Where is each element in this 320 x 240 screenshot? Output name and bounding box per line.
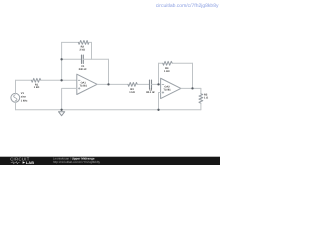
resistor R4: [163, 61, 173, 65]
wire feedback left vertical: [61, 42, 63, 80]
wire R4 right vertical down to output: [192, 63, 194, 88]
wire OA2 noninverting input to rail: [159, 93, 161, 110]
node dot ground junction: [60, 109, 62, 111]
svg-text:circuitlab.com/c/7fh2jg8kb8y: circuitlab.com/c/7fh2jg8kb8y: [156, 3, 219, 9]
wire OA1 noninverting input to ground drop: [62, 88, 77, 109]
svg-text:240 nF: 240 nF: [79, 68, 88, 71]
resistor R2: [78, 41, 89, 45]
svg-text:TL081: TL081: [163, 89, 171, 92]
wire bottom rail: [16, 109, 201, 111]
node dot feedback-input junction: [60, 79, 62, 81]
wire V1 bottom lead: [15, 102, 17, 109]
label R5: [204, 94, 208, 100]
wire R4 row left: [159, 62, 163, 64]
svg-text:1 kΩ: 1 kΩ: [129, 91, 135, 94]
wire R2 row right: [89, 41, 92, 43]
svg-text:1 Ω: 1 Ω: [204, 97, 208, 100]
logo CircuitLab: [10, 157, 34, 165]
wire R1 to OA1 inverting input: [41, 79, 77, 81]
watermark bar: [0, 157, 220, 165]
resistor R1: [32, 78, 41, 82]
wire V1 top lead: [15, 80, 17, 93]
node dot OA2 ground junction: [157, 109, 159, 111]
wire R2-C1 right vertical: [91, 42, 93, 59]
wire R5 bottom lead: [200, 103, 202, 110]
voltage source V1: [11, 93, 20, 102]
svg-text:1 kHz: 1 kHz: [21, 99, 28, 102]
watermark text: [53, 157, 101, 165]
wire OA2 output row: [181, 87, 201, 89]
wire C1 row down to output: [108, 59, 110, 84]
svg-text:2 kΩ: 2 kΩ: [80, 48, 86, 51]
wire R4 feedback left vertical: [158, 63, 160, 84]
svg-text:sine: sine: [21, 96, 27, 99]
svg-text:http://circuitlab.com/c/7Th2Jg: http://circuitlab.com/c/7Th2Jg8kb8y: [53, 160, 101, 164]
resistor R5: [199, 94, 203, 104]
node dot OA1 output junction: [107, 83, 109, 85]
op-amp OA2: [161, 78, 181, 98]
capacitor C1: [82, 55, 84, 63]
label V1: [21, 92, 28, 102]
ground: [59, 112, 65, 116]
node dot OA2 input junction: [157, 83, 159, 85]
wire signal row V1 to R1: [16, 79, 32, 81]
svg-text:1 kΩ: 1 kΩ: [164, 70, 170, 73]
node dot C1 row left junction: [60, 58, 62, 60]
svg-text:1 kΩ: 1 kΩ: [34, 86, 40, 89]
capacitor C2: [150, 80, 152, 89]
wire R4 row right: [172, 62, 192, 64]
node dot OA2 output junction: [191, 87, 193, 89]
svg-text:LAB: LAB: [26, 161, 34, 165]
wire R3 to C2: [137, 83, 149, 85]
svg-text:TL081: TL081: [80, 85, 88, 88]
url watermark top-right: [156, 3, 219, 9]
wire OA1 output row: [97, 83, 128, 85]
wire C1 row right: [83, 58, 108, 60]
wire C1 row left: [62, 58, 82, 60]
wire R5 top lead: [200, 88, 202, 93]
resistor R3: [128, 83, 137, 87]
op-amp OA1: [77, 74, 97, 94]
svg-text:82.1 nF: 82.1 nF: [146, 91, 155, 94]
wire C2 to OA2 inverting input: [152, 83, 161, 85]
wire R2 row left: [62, 41, 79, 43]
